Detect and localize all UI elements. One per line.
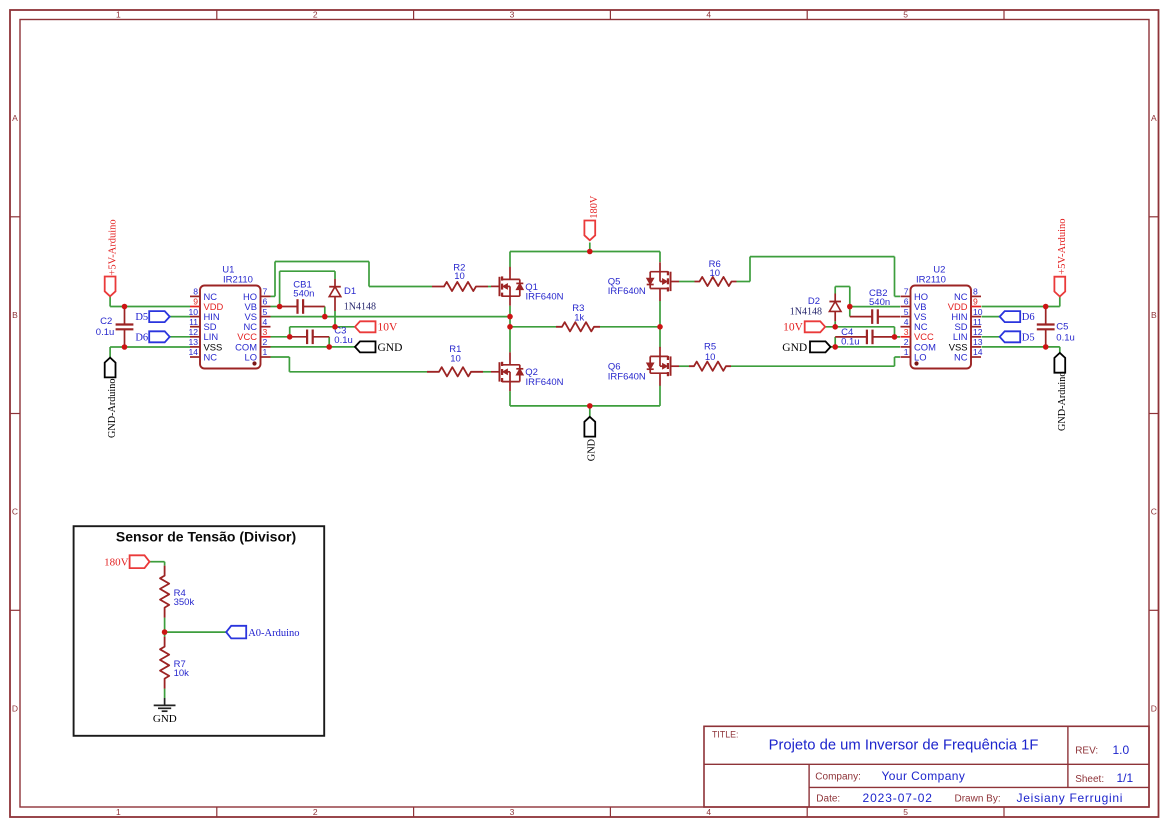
svg-text:10: 10 <box>188 307 198 317</box>
net flag A0-Arduino <box>226 626 299 639</box>
svg-text:2: 2 <box>313 807 318 817</box>
svg-text:GND: GND <box>587 438 598 461</box>
svg-text:5: 5 <box>903 807 908 817</box>
transistor Q6 IRF640N <box>608 347 679 386</box>
svg-text:9: 9 <box>973 297 978 307</box>
svg-text:IRF640N: IRF640N <box>526 377 564 388</box>
svg-text:A0-Arduino: A0-Arduino <box>248 628 299 639</box>
power flag 10V right <box>783 321 825 333</box>
svg-text:IRF640N: IRF640N <box>608 286 646 297</box>
wire U1 VB to CB1 / D1 riser <box>271 271 336 306</box>
svg-text:5: 5 <box>263 307 268 317</box>
power flag GND right <box>782 341 830 353</box>
wire U1 HO to R2 to Q1 gate <box>271 262 492 297</box>
capacitor CB2 540n <box>850 288 900 324</box>
earth ground symbol sensor <box>153 698 177 725</box>
svg-text:C: C <box>1151 507 1157 517</box>
resistor R4 350k <box>160 566 194 618</box>
svg-text:D: D <box>1151 703 1157 713</box>
power flag 180V sensor <box>104 555 149 568</box>
power flag GND bridge <box>584 417 597 461</box>
power flag +5V-Arduino left <box>105 219 119 296</box>
svg-text:+5V-Arduino: +5V-Arduino <box>107 219 118 275</box>
svg-text:IR2110: IR2110 <box>223 274 253 285</box>
svg-text:Your Company: Your Company <box>882 769 966 783</box>
wire D6 flag to U1 LIN <box>170 336 190 338</box>
resistor R7 10k <box>160 637 189 689</box>
IC U2 IR2110 <box>901 265 983 369</box>
svg-text:3: 3 <box>510 807 515 817</box>
svg-text:C2: C2 <box>100 316 112 327</box>
power flag GND-Arduino left <box>105 358 118 438</box>
svg-text:1/1: 1/1 <box>1117 771 1134 785</box>
resistor R6 10 <box>695 259 737 286</box>
wire D5 flag to U1 HIN <box>170 316 190 318</box>
svg-text:A: A <box>12 113 18 123</box>
svg-text:12: 12 <box>188 327 198 337</box>
wire U2 VSS to GND-Arduino / C5 <box>982 347 1060 353</box>
svg-text:10V: 10V <box>378 322 399 334</box>
sensor box Sensor de Tensao (Divisor) <box>74 526 325 736</box>
svg-text:180V: 180V <box>104 557 129 569</box>
svg-text:Drawn By:: Drawn By: <box>955 794 1001 805</box>
svg-text:LO: LO <box>244 351 257 362</box>
diode D1 1N4148 <box>329 279 376 313</box>
transistor Q1 IRF640N <box>491 267 564 306</box>
net flag D5 left <box>135 311 169 323</box>
svg-text:Date:: Date: <box>816 794 840 805</box>
net flag D5 right <box>1000 331 1035 343</box>
power flag 10V left <box>355 321 398 333</box>
svg-text:14: 14 <box>973 347 983 357</box>
svg-text:C5: C5 <box>1056 322 1068 333</box>
resistor R1 10 <box>427 344 483 376</box>
svg-text:7: 7 <box>904 287 909 297</box>
svg-text:GND: GND <box>782 342 807 354</box>
wire U1 COM to GND flag / C3 <box>271 337 356 347</box>
svg-text:TITLE:: TITLE: <box>712 729 738 739</box>
svg-text:NC: NC <box>204 351 218 362</box>
svg-text:1: 1 <box>116 9 121 19</box>
power flag 180V bridge <box>584 195 600 240</box>
svg-text:1: 1 <box>116 807 121 817</box>
power flag GND-Arduino right <box>1054 353 1067 431</box>
svg-text:D1: D1 <box>344 286 356 297</box>
net flag D6 right <box>1000 311 1035 323</box>
svg-text:6: 6 <box>263 297 268 307</box>
wire U2 COM to GND flag / C4 <box>831 337 901 347</box>
svg-text:IRF640N: IRF640N <box>526 292 564 303</box>
svg-text:D6: D6 <box>1022 312 1035 323</box>
svg-text:8: 8 <box>193 287 198 297</box>
svg-text:3: 3 <box>904 327 909 337</box>
svg-text:13: 13 <box>188 337 198 347</box>
wire Q6 gate via R5 to U2 LO <box>679 357 900 366</box>
svg-text:GND: GND <box>153 713 177 725</box>
svg-text:4: 4 <box>706 9 711 19</box>
resistor R3 1k <box>556 303 600 331</box>
svg-text:4: 4 <box>904 317 909 327</box>
capacitor C5 0.1u <box>1037 307 1075 347</box>
svg-text:1.0: 1.0 <box>1113 743 1130 757</box>
svg-text:4: 4 <box>263 317 268 327</box>
svg-text:GND: GND <box>378 342 403 354</box>
diode D2 1N4148 <box>790 294 841 322</box>
wire 10V net to U2 VCC <box>825 321 900 337</box>
wire sensor 180V to R4 <box>150 562 165 566</box>
wire 180V top rail <box>510 243 660 252</box>
svg-text:1k: 1k <box>574 313 584 324</box>
wire 10V net to U1 VCC <box>271 311 356 337</box>
svg-text:11: 11 <box>973 317 982 327</box>
wire U1 LO to R1 to Q2 gate <box>271 357 492 372</box>
svg-text:IR2110: IR2110 <box>916 274 946 285</box>
svg-text:GND-Arduino: GND-Arduino <box>107 379 118 438</box>
svg-text:180V: 180V <box>589 195 600 218</box>
svg-text:10: 10 <box>973 307 983 317</box>
wire U2 HIN to D6 flag <box>982 316 1000 318</box>
svg-text:0.1u: 0.1u <box>96 327 115 338</box>
svg-text:350k: 350k <box>174 597 195 608</box>
svg-text:0.1u: 0.1u <box>841 337 860 348</box>
title block <box>704 726 1149 807</box>
svg-text:10: 10 <box>705 352 716 363</box>
svg-text:0.1u: 0.1u <box>1056 332 1075 343</box>
svg-text:2023-07-02: 2023-07-02 <box>863 791 933 805</box>
wire U2 VB / D2 riser / CB2 <box>835 287 900 317</box>
svg-text:10: 10 <box>710 268 721 279</box>
net flag D6 left <box>135 331 169 343</box>
svg-text:B: B <box>1151 310 1157 320</box>
svg-text:10V: 10V <box>783 322 804 334</box>
capacitor C4 0.1u <box>835 327 894 347</box>
svg-text:10: 10 <box>450 353 461 364</box>
svg-text:8: 8 <box>973 287 978 297</box>
svg-text:13: 13 <box>973 337 983 347</box>
power flag +5V-Arduino right <box>1054 219 1068 297</box>
svg-text:11: 11 <box>189 317 198 327</box>
svg-text:REV:: REV: <box>1075 746 1098 757</box>
svg-text:9: 9 <box>193 297 198 307</box>
svg-text:2: 2 <box>313 9 318 19</box>
svg-text:0.1u: 0.1u <box>334 335 353 346</box>
svg-text:A: A <box>1151 113 1157 123</box>
wire right bridge rail <box>659 252 661 406</box>
svg-text:C: C <box>12 507 18 517</box>
wire sensor R7 to GND <box>164 689 166 698</box>
wire U1 VS rail to bridge midpoint <box>271 307 511 317</box>
svg-text:12: 12 <box>973 327 983 337</box>
svg-text:10: 10 <box>454 271 465 282</box>
svg-text:3: 3 <box>510 9 515 19</box>
svg-text:6: 6 <box>904 297 909 307</box>
svg-text:D2: D2 <box>808 296 820 307</box>
transistor Q2 IRF640N <box>491 352 564 391</box>
power flag GND left <box>355 341 402 353</box>
IC U1 IR2110 <box>188 265 270 369</box>
wire +5V-Arduino to U1 VDD <box>110 296 190 306</box>
svg-text:10k: 10k <box>174 668 190 679</box>
wire GND-Arduino / C2 / U1 VSS <box>110 347 190 358</box>
svg-text:2: 2 <box>904 337 909 347</box>
svg-text:IRF640N: IRF640N <box>608 372 646 383</box>
svg-text:R5: R5 <box>704 341 716 352</box>
svg-text:Projeto de um Inversor de Freq: Projeto de um Inversor de Frequência 1F <box>769 738 1039 754</box>
wire bridge midpoint through R3 <box>510 326 660 328</box>
svg-text:14: 14 <box>188 347 198 357</box>
resistor R5 10 <box>689 341 731 370</box>
svg-text:D5: D5 <box>135 312 148 323</box>
svg-text:Sheet:: Sheet: <box>1075 774 1104 785</box>
svg-text:B: B <box>12 310 18 320</box>
svg-text:1: 1 <box>263 347 268 357</box>
transistor Q5 IRF640N <box>608 262 679 301</box>
svg-text:Jeisiany Ferrugini: Jeisiany Ferrugini <box>1017 791 1124 805</box>
svg-text:5: 5 <box>904 307 909 317</box>
svg-text:540n: 540n <box>293 289 314 300</box>
svg-text:1: 1 <box>904 347 909 357</box>
svg-text:4: 4 <box>706 807 711 817</box>
wire bridge bottom rail to GND <box>510 406 660 417</box>
wire left bridge rail <box>509 252 511 406</box>
svg-text:Sensor de Tensão (Divisor): Sensor de Tensão (Divisor) <box>116 528 296 544</box>
svg-text:D: D <box>12 703 18 713</box>
wire U2 LIN to D5 flag <box>982 336 1000 338</box>
capacitor C2 0.1u <box>96 307 134 348</box>
resistor R2 10 <box>432 262 488 291</box>
svg-text:5: 5 <box>903 9 908 19</box>
svg-text:D6: D6 <box>135 332 148 343</box>
svg-text:GND-Arduino: GND-Arduino <box>1057 372 1068 431</box>
svg-text:D5: D5 <box>1022 332 1035 343</box>
svg-text:LO: LO <box>914 351 927 362</box>
svg-text:7: 7 <box>263 287 268 297</box>
svg-text:1N4148: 1N4148 <box>344 302 376 313</box>
capacitor CB1 540n <box>280 280 325 314</box>
wire sensor divider midpoint to A0-Arduino <box>165 618 227 637</box>
svg-text:NC: NC <box>954 351 968 362</box>
wire U2 VDD to +5V-Arduino / C5 <box>982 297 1060 307</box>
svg-text:1N4148: 1N4148 <box>790 307 822 318</box>
svg-text:Company:: Company: <box>815 772 861 783</box>
svg-text:540n: 540n <box>869 297 890 308</box>
wire Q5 gate via R6 to U2 HO <box>679 257 900 297</box>
capacitor C3 0.1u <box>290 326 353 346</box>
svg-text:2: 2 <box>263 337 268 347</box>
svg-text:3: 3 <box>263 327 268 337</box>
svg-text:+5V-Arduino: +5V-Arduino <box>1057 219 1068 275</box>
